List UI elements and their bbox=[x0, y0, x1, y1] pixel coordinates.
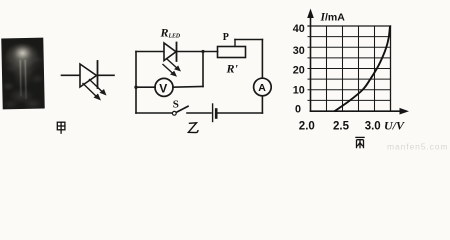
svg-text:0: 0 bbox=[295, 104, 301, 116]
svg-text:U/V: U/V bbox=[384, 119, 405, 133]
svg-text:RLED: RLED bbox=[160, 26, 181, 40]
svg-text:2.5: 2.5 bbox=[333, 121, 350, 133]
svg-text:S: S bbox=[173, 99, 179, 111]
svg-text:A: A bbox=[258, 82, 266, 94]
svg-text:I/mA: I/mA bbox=[320, 12, 346, 24]
svg-text:3.0: 3.0 bbox=[365, 121, 381, 133]
svg-text:40: 40 bbox=[293, 23, 305, 35]
svg-text:P: P bbox=[223, 32, 229, 43]
svg-text:2.0: 2.0 bbox=[299, 121, 315, 133]
svg-text:R': R' bbox=[226, 62, 239, 76]
svg-text:30: 30 bbox=[293, 45, 305, 57]
svg-text:manfen5.com: manfen5.com bbox=[387, 142, 448, 152]
svg-text:10: 10 bbox=[293, 84, 305, 96]
svg-text:V: V bbox=[159, 81, 167, 95]
svg-text:20: 20 bbox=[293, 64, 305, 76]
